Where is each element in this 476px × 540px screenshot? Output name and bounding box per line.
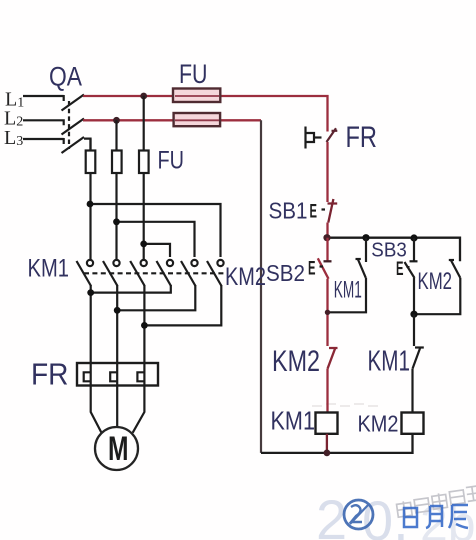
wire branch B to KM2 c5 [117,222,195,257]
fuse FU1 (L1) [173,89,220,103]
wire FR to SB1 red [326,142,328,202]
heater element 2 [110,363,117,386]
svg-text:KM2: KM2 [272,345,320,378]
wire c1 down [90,285,92,363]
svg-text:KM1: KM1 [271,406,316,436]
coil KM2 [402,413,424,434]
node dot x3 [141,322,148,329]
svg-text:E: E [396,259,404,280]
button SB3 (NO) [405,238,418,314]
watermark gray CJK (simplified boxes) [396,486,476,519]
fuse FUb [112,151,122,174]
contact FR NC [306,127,322,149]
svg-text:SB1: SB1 [269,198,308,224]
button SB1 (NC) [328,199,338,223]
contact KM2 aux (NO) [414,260,460,314]
wire c2 down [116,285,118,363]
contact c5 [191,260,197,266]
node dot branch A [87,201,94,208]
fuse FUa [86,151,96,174]
wire L3 to fuse [84,139,91,151]
wire control rail [327,238,460,262]
node dot x1 [87,289,94,296]
wire L1 in [23,95,64,101]
wire crossover c5 [117,285,195,310]
watermark blue CJK 日月辰 (hand drawn) [404,505,468,528]
wire phase C drop [143,96,145,260]
wire branch A to KM2 c6 [90,204,221,257]
wire control left rail [260,120,262,453]
node dot on L2 wire [113,117,120,124]
wire to motor right [133,386,145,433]
svg-text:KM1: KM1 [368,346,411,378]
fuse FU2 (L2) [174,113,221,126]
svg-text:SB2: SB2 [266,260,305,286]
wire SB2 down red [326,279,328,346]
wire KM2NC to coil red [326,369,328,413]
faint gray small watermark near KM1 NC [312,404,378,406]
contact c4 [167,260,173,266]
contact c6 [217,260,223,266]
svg-text:FU: FU [158,147,185,175]
svg-text:0.: 0. [362,489,409,540]
linkage dashed KM [84,272,226,274]
contact c2 [113,260,119,266]
wire to motor mid [116,386,118,428]
switch QA blade 2 [62,119,85,135]
coil KM1 [316,413,338,434]
node dot SB3/KM2aux join [410,311,417,318]
svg-text:KM2: KM2 [358,411,399,437]
wire to motor left [91,386,102,433]
wire phase B drop [115,120,117,259]
wire crossover c4 [91,285,171,293]
contact KM1 aux (NO) [328,238,367,313]
wire coil KM1 bottom red [326,434,328,453]
svg-text:E: E [310,202,318,223]
svg-text:FR: FR [346,121,378,154]
watermark blue circle logo [344,500,373,529]
wire bottom rail [261,434,413,453]
node dot rail 1 [323,234,330,241]
node dot branch C [140,241,147,248]
svg-text:KM1: KM1 [28,255,70,283]
svg-text:2: 2 [316,488,347,540]
node dot on L1 wire [140,93,147,100]
button SB2 (NO) red [326,238,328,261]
motor M1 [95,427,138,470]
heater element 1 [84,363,91,386]
fuse FUc [139,151,149,174]
wire phase A drop [89,139,91,260]
svg-text:M: M [108,430,129,468]
svg-text:KM2: KM2 [225,263,266,291]
wire L3 in [23,138,64,144]
svg-text:SB3: SB3 [371,240,407,262]
relay FR heater box [77,363,158,386]
node dot rail 2 [362,234,369,241]
switch QA blade 3 [62,137,85,153]
contactor KM1 main contacts + KM2 main contacts [77,260,227,286]
node dot bottom [324,450,331,457]
svg-text:FU: FU [179,59,208,89]
svg-text:FR: FR [31,357,69,392]
wire L2 in [23,119,64,125]
svg-text:QA: QA [49,62,82,92]
wire c3 down [143,285,145,363]
wire crossover c6 [144,285,221,325]
wire L1 red [83,96,328,132]
heater element 3 [137,363,144,386]
contact c1 [87,260,93,266]
wire branch C to KM2 c4 [144,244,170,257]
wire L2 red [83,119,261,121]
svg-text:KM1: KM1 [334,277,362,304]
node dot SB2/KM1aux join [325,310,330,315]
node dot rail 3 [410,234,417,241]
contact c3 [141,260,147,266]
svg-text:E: E [308,259,316,280]
switch QA linkage dashed [68,101,70,149]
contact KM1 NC interlock [413,314,424,412]
switch QA blade 1 [62,95,85,111]
svg-text:KM2: KM2 [418,268,453,295]
node dot x2 [114,307,121,314]
contact KM2 NC interlock (red) [328,348,338,369]
watermark big faint digits [316,488,476,540]
node dot branch B [113,218,120,225]
wire SB1 down red [326,223,328,238]
